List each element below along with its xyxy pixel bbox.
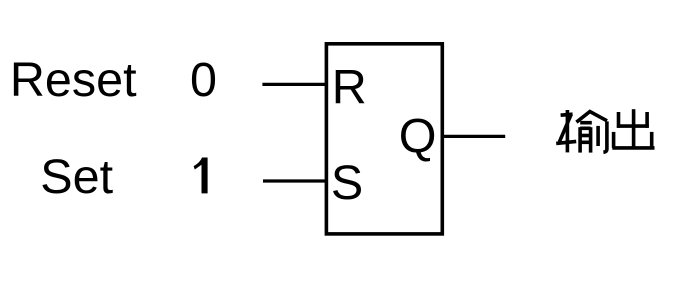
svg-text:0: 0 bbox=[190, 53, 217, 107]
svg-text:Set: Set bbox=[40, 150, 113, 204]
svg-text:R: R bbox=[332, 60, 367, 114]
value 1 (S input) bbox=[194, 158, 208, 194]
hanzi 出 bbox=[612, 109, 654, 148]
svg-text:Reset: Reset bbox=[10, 53, 137, 107]
SR latch box U1 bbox=[326, 44, 442, 234]
wire S input bbox=[263, 179, 327, 182]
hanzi 输 bbox=[556, 110, 607, 153]
label 输出 (output) bbox=[556, 109, 654, 152]
wire Q output bbox=[442, 135, 505, 138]
svg-text:S: S bbox=[331, 156, 363, 210]
svg-text:Q: Q bbox=[399, 110, 437, 164]
wire R input bbox=[262, 83, 326, 86]
